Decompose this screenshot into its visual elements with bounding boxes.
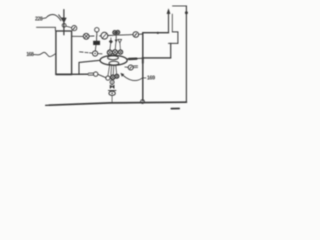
vent line horizontal — [173, 5, 187, 7]
stem with down arrow — [115, 34, 117, 40]
column up arrow — [167, 9, 170, 13]
vessel right wall — [170, 43, 172, 58]
feed line into tank top — [37, 27, 56, 30]
manifold outlet line — [127, 57, 143, 60]
twin dark circles — [113, 31, 117, 35]
cluster circle A — [111, 75, 115, 79]
tank outlet pipe — [72, 73, 88, 75]
bottom right dash — [171, 108, 179, 110]
step right wall — [177, 32, 179, 44]
manifold inner upper ellipse — [108, 56, 119, 60]
gauge stub — [66, 26, 71, 27]
tank 168 — [56, 31, 72, 74]
vessel bottom edge — [143, 57, 171, 59]
mid row circle X left — [107, 50, 112, 55]
bottom oval — [109, 91, 115, 95]
svg-text:228: 228 — [35, 17, 43, 23]
cluster circle open left — [106, 76, 110, 80]
cluster circle D — [110, 80, 114, 84]
gauge left dash — [125, 66, 128, 68]
stem funnel to circle — [119, 43, 121, 50]
fan line 4 — [115, 65, 118, 74]
check valve — [59, 15, 64, 22]
fan line 3 — [112, 66, 115, 75]
gauge before vessel — [133, 32, 139, 38]
mid row circle X center — [113, 50, 118, 55]
svg-text:169: 169 — [147, 76, 155, 82]
cluster circle B — [115, 74, 119, 78]
svg-text:168: 168 — [26, 52, 34, 58]
vessel left wall — [142, 33, 144, 101]
bus dashy left end — [46, 104, 48, 106]
vessel top edge — [143, 32, 169, 34]
tank bottom thick — [56, 73, 72, 75]
ring right dash — [98, 53, 102, 55]
stem diamond to circle — [109, 44, 112, 50]
bar over oval — [108, 90, 116, 92]
manifold feed line — [79, 60, 100, 62]
step horizontal lower — [169, 42, 178, 44]
T branch actuator box — [96, 36, 98, 41]
pump circle — [94, 72, 98, 76]
leader 169 curve with arrow — [123, 76, 142, 81]
gauge right break dashes — [134, 66, 138, 68]
bowtie valve — [110, 85, 112, 89]
junction dot on top edge — [157, 32, 159, 34]
sloped line to cluster — [98, 74, 106, 77]
gauge PI top-left — [72, 26, 77, 31]
circle on inlet pipe — [62, 23, 66, 27]
dash-dot line left of ring — [80, 52, 93, 53]
leader 228 — [43, 14, 61, 20]
inlet pipe — [63, 10, 65, 35]
stem to bowtie — [111, 84, 113, 85]
mid row circle X right — [118, 50, 122, 54]
step horizontal upper — [172, 31, 178, 33]
right drop line — [185, 6, 187, 102]
stem box to ring — [94, 45, 97, 51]
top pipe run — [72, 35, 84, 37]
manifold inner lower ellipse — [109, 61, 119, 65]
manifold body ellipse — [100, 55, 127, 65]
junction circle at vessel wall — [141, 100, 145, 104]
leader 168 — [34, 52, 56, 56]
column right wall — [171, 14, 173, 32]
ring valve mid row — [93, 51, 98, 56]
leader 169 dash — [142, 77, 146, 79]
break dashes — [88, 73, 93, 75]
fan line 1 — [108, 65, 110, 76]
valve circle-X — [83, 33, 89, 39]
column left wall — [168, 10, 170, 32]
bottom bus — [49, 102, 187, 105]
wall junction dab — [142, 58, 144, 64]
stem to bus — [111, 95, 113, 102]
fan line 2 — [110, 66, 113, 75]
manifold feed riser — [78, 63, 80, 75]
stem arrow to circle — [114, 42, 117, 49]
outlet arrow thick — [129, 58, 137, 61]
small filled diamond — [109, 40, 113, 44]
junction dot right drop — [185, 11, 188, 14]
open funnel triangle — [118, 39, 122, 43]
T branch circle above — [95, 28, 99, 32]
valve circle-slash — [101, 32, 108, 39]
gauge under outlet — [128, 65, 133, 70]
